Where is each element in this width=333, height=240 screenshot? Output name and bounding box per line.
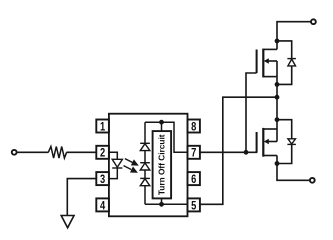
- svg-text:1: 1: [100, 119, 105, 133]
- svg-text:7: 7: [191, 146, 196, 160]
- svg-text:Turn Off Circuit: Turn Off Circuit: [156, 134, 166, 195]
- svg-text:6: 6: [191, 172, 196, 186]
- svg-text:2: 2: [100, 146, 105, 160]
- svg-text:3: 3: [100, 172, 105, 186]
- svg-text:4: 4: [100, 198, 105, 212]
- svg-text:8: 8: [191, 119, 196, 133]
- svg-text:5: 5: [191, 198, 196, 212]
